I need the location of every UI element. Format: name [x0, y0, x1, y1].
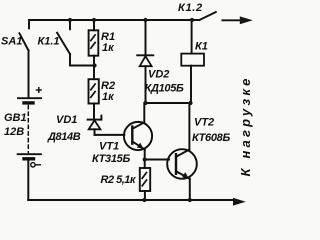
svg-text:VT1: VT1	[99, 141, 119, 153]
svg-text:SA1: SA1	[1, 35, 22, 47]
relay contact K1.2	[200, 12, 216, 20]
wire VT1 emitter to VT2 base	[145, 159, 169, 161]
wire VT1 collector	[143, 103, 145, 122]
wire bottom rail	[28, 199, 233, 201]
junction K1 coil bottom	[188, 101, 192, 105]
battery plus sign	[36, 87, 42, 93]
junction top rail at K1.1	[68, 18, 72, 22]
junction bottom rail at VT2 emitter	[188, 198, 192, 202]
diode VD2	[137, 20, 153, 103]
svg-text:КТ608Б: КТ608Б	[192, 132, 230, 144]
resistor R2' 5.1k	[140, 160, 150, 201]
resistor R2	[89, 79, 99, 103]
junction R1/R2/K1.1	[92, 63, 96, 67]
svg-text:VD2: VD2	[148, 69, 169, 81]
wire output arrow bottom	[233, 198, 246, 206]
svg-text:VD1: VD1	[56, 114, 77, 126]
svg-text:1к: 1к	[102, 91, 115, 103]
switch SA1	[19, 20, 29, 98]
relay coil K1	[181, 20, 204, 103]
svg-text:Д814В: Д814В	[47, 131, 81, 143]
battery GB1	[18, 98, 41, 200]
svg-text:КД105Б: КД105Б	[145, 83, 185, 95]
junction top rail at R1	[92, 18, 96, 22]
svg-text:GB1: GB1	[4, 112, 27, 124]
wire R1 to R2	[93, 56, 95, 79]
svg-text:VT2: VT2	[194, 117, 214, 129]
VT2 emitter arrowhead	[182, 172, 189, 178]
svg-text:12В: 12В	[4, 126, 24, 138]
wire VD1 to VT1 base	[95, 134, 125, 136]
junction bottom rail at R2'	[142, 198, 146, 202]
svg-text:К1.1: К1.1	[38, 35, 60, 47]
junction VT1 emitter node	[143, 157, 147, 161]
svg-text:К1: К1	[195, 41, 208, 53]
svg-text:R2 5,1к: R2 5,1к	[101, 174, 137, 186]
wire node line VD1-anode/K1/VT2-collector (y=103)	[146, 102, 191, 104]
svg-text:К1.2: К1.2	[178, 2, 203, 14]
transistor VT1	[124, 122, 152, 150]
relay contact K1.1	[57, 20, 94, 66]
svg-text:КТ315Б: КТ315Б	[92, 153, 130, 165]
wire R2 to VD1	[93, 104, 95, 119]
zener diode VD1	[88, 116, 102, 135]
resistor R1	[89, 20, 99, 56]
transistor VT2	[167, 149, 197, 179]
wire VT2 collector	[188, 103, 190, 150]
junction VD2 anode	[143, 101, 147, 105]
wire output arrow top	[222, 19, 241, 21]
junction top rail at K1	[190, 18, 194, 22]
VT1 emitter arrowhead	[137, 143, 144, 149]
wire top rail	[29, 19, 200, 21]
svg-text:1к: 1к	[102, 42, 115, 54]
wire VT2 emitter down	[189, 179, 191, 200]
svg-text:К нагрузке: К нагрузке	[238, 75, 253, 176]
junction top rail at VD2	[143, 18, 147, 22]
wire VT1 emitter down	[144, 149, 146, 159]
